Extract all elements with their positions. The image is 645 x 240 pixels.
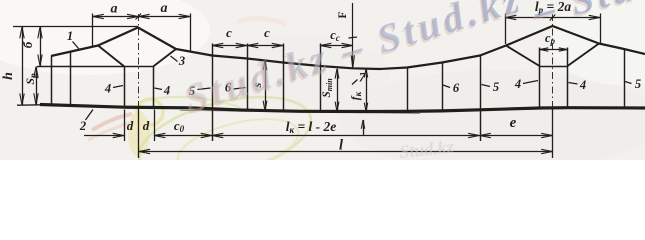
svg-text:d: d [127, 118, 134, 133]
dimension h vertical [22, 27, 24, 105]
dimension row d d c0 l_k e [84, 135, 124, 137]
hanger at x=320 (ext to c_c dim) [320, 44, 322, 112]
svg-text:5: 5 [493, 80, 499, 94]
svg-text:h: h [1, 72, 16, 80]
paper background mottling [0, 0, 645, 160]
svg-text:б: б [20, 41, 35, 48]
dimension б vertical [40, 27, 42, 66]
svg-text:c: c [264, 25, 270, 40]
force F line [352, 3, 354, 68]
dimension s vertical [265, 60, 267, 110]
apex level extension line [13, 26, 138, 28]
extension below beam x=154 [154, 110, 156, 142]
svg-text:a: a [111, 2, 118, 17]
tick on F line [349, 37, 358, 38]
svg-text:c: c [226, 25, 232, 40]
dimension line l [139, 151, 553, 153]
hanger at x=480 (extension below beam to e dim) [480, 56, 482, 142]
left pylon leg right (part 4) [153, 66, 155, 108]
svg-text:e: e [510, 115, 517, 131]
hanger at x=70 [70, 52, 72, 106]
svg-text:2: 2 [79, 119, 86, 133]
extension below beam x=124 [124, 110, 126, 142]
right pylon leg left (part 4) [539, 48, 541, 109]
extension line x=190 for a [190, 14, 192, 53]
left pylon tie / anchor level line [37, 66, 154, 68]
beam level extension at left [17, 104, 42, 106]
svg-text:lк = l - 2e: lк = l - 2e [286, 119, 337, 135]
svg-text:4: 4 [514, 77, 521, 91]
svg-text:a: a [161, 1, 168, 16]
right pylon stay left (apex to left leg top) [506, 46, 540, 67]
right pylon leg right (part 4) [567, 48, 569, 108]
svg-text:5: 5 [635, 77, 641, 91]
dimension line c_p [540, 49, 568, 51]
hanger at x=212 (with extension to c dim and c0 dim) [212, 44, 214, 142]
left pylon stay left (apex to left leg top) [98, 46, 124, 67]
right pylon stay right [568, 44, 600, 67]
hanger at x=624 [624, 49, 626, 108]
left end post [51, 56, 53, 105]
left centre extension below beam [138, 109, 140, 159]
hanger at x=442 [442, 63, 444, 111]
watermark emblem pink strokes [92, 114, 132, 130]
left pylon stay right (part 3) [154, 49, 177, 66]
left pylon leg left (part 4) [124, 66, 126, 107]
dimension line c c [212, 45, 283, 47]
right pylon centre line [552, 14, 554, 108]
left pylon centre line [138, 14, 140, 109]
dimension line c_c [320, 45, 353, 47]
dimension f_к vertical [366, 69, 368, 112]
svg-text:l: l [339, 138, 343, 154]
tick at l_p centre [550, 15, 556, 21]
hanger at x=407 [407, 68, 409, 112]
right centre extension below beam [552, 108, 554, 158]
svg-text:F: F [335, 11, 349, 18]
extension line x=92.5 for a [92, 14, 94, 47]
dimension S_p vertical [36, 67, 38, 105]
watermark emblem yellow blob [128, 111, 150, 157]
svg-text:4: 4 [163, 84, 170, 98]
beam bottom chord (part 2) [40, 105, 645, 112]
svg-text:d: d [143, 118, 150, 133]
svg-text:3: 3 [178, 54, 185, 68]
extension line x=505 [505, 14, 507, 45]
hanger at x=247 (ext to c dim) [247, 44, 249, 111]
right pylon tie [540, 66, 568, 68]
arrow below beam at x=363 [363, 120, 365, 135]
extension line x=600 [600, 14, 602, 45]
watermark emblem green arcs [131, 82, 319, 194]
hanger at x=283 (ext to c dim) [283, 44, 285, 111]
dimension S_min vertical [337, 69, 339, 112]
watermark emblem circle [137, 99, 163, 125]
svg-text:4: 4 [104, 82, 111, 96]
tick at a junction [136, 14, 142, 20]
main cable top chord (part 1) [51, 26, 645, 69]
dimension line a a [93, 16, 191, 18]
svg-text:7: 7 [359, 71, 366, 85]
svg-text:1: 1 [67, 29, 73, 43]
svg-text:6: 6 [453, 81, 460, 95]
dimension line l_p = 2a [505, 17, 600, 19]
svg-text:4: 4 [579, 78, 586, 92]
